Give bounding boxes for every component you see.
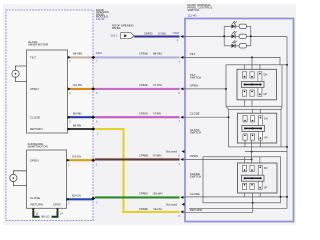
svg-text:VT-WH: VT-WH (153, 83, 162, 87)
svg-text:111-40: 111-40 (187, 14, 196, 18)
net ring sw1 (226, 65, 282, 107)
open row shade (185, 158, 252, 160)
wire WH-BN tilt (left) (68, 56, 94, 58)
svg-text:YE-OG: YE-OG (153, 207, 162, 211)
junction diamond C901 (91, 56, 95, 59)
svg-text:UP: UP (264, 137, 268, 140)
open row (185, 88, 226, 90)
bus bottom horizontal (189, 207, 287, 209)
svg-text:DN: DN (264, 167, 268, 170)
junction dots LED bus (223, 35, 225, 37)
svg-text:TILT: TILT (30, 55, 36, 59)
wire CP30E VT-WH open (right) (95, 88, 180, 90)
tilt row (185, 57, 280, 64)
svg-text:WH-BN: WH-BN (73, 52, 82, 56)
connector flag: roof opening panel feed (121, 33, 135, 39)
svg-text:WH-BU: WH-BU (153, 52, 162, 56)
close row shade (185, 196, 287, 198)
wire: supply into LED bus (185, 36, 224, 38)
svg-text:CPR0B: CPR0B (139, 154, 148, 158)
svg-text:SWITCH: SWITCH (190, 131, 201, 135)
svg-text:UP: UP (264, 93, 268, 96)
LED D1 (231, 24, 235, 28)
module box: ROOF OPENING PANEL MODULE (dashed boundary) (6, 10, 93, 221)
svg-text:CPR05: CPR05 (139, 192, 148, 196)
LED D2 (231, 34, 235, 38)
sw2 bottom collector (245, 151, 287, 153)
svg-text:OG-GN: OG-GN (72, 155, 81, 159)
internal rows / nets (185, 57, 287, 212)
svg-text:CBP30: CBP30 (144, 31, 153, 35)
resistor R1 (239, 24, 246, 28)
svg-text:CP30E: CP30E (139, 83, 148, 87)
svg-text:VT-BN: VT-BN (153, 112, 161, 116)
svg-text:BK-LG: BK-LG (41, 214, 49, 218)
wire: bus to LED D1 (224, 25, 231, 27)
label: ROOF OPENING PANEL CONTROL SWITCH 111-40 (187, 3, 212, 18)
motor M1 (glass smartmotor) (12, 66, 27, 82)
LED branch 2 (224, 31, 251, 39)
svg-text:SWITCH: SWITCH (190, 76, 201, 80)
svg-text:RETURN: RETURN (30, 127, 43, 131)
LED right bus (250, 26, 252, 46)
LED left bus (223, 26, 225, 46)
svg-text:BK-BN: BK-BN (73, 123, 81, 127)
svg-text:CLOSE: CLOSE (190, 192, 200, 196)
LED branch 3 (224, 41, 251, 49)
wire CPR0B GY-BN shade open (right) (95, 158, 180, 160)
svg-text:Not used: Not used (166, 150, 177, 154)
switch S2 (GLASS DN/UP) (237, 113, 276, 151)
switch S3 (SHADE DN/UP) (238, 152, 278, 203)
svg-text:101-1: 101-1 (111, 34, 119, 38)
svg-text:UP: UP (264, 186, 268, 189)
junction dots (251, 56, 253, 58)
svg-text:SWITCH: SWITCH (187, 8, 199, 12)
svg-text:C901: C901 (96, 51, 103, 55)
sunshade smartmotor box (27, 150, 67, 208)
svg-text:RETURN: RETURN (190, 208, 202, 212)
svg-text:OPEN: OPEN (30, 87, 39, 91)
wire CPR4E YE-OG return path (yellow) (95, 129, 180, 212)
wire BK-BN return (left) (68, 128, 94, 130)
wire jog left ring1-ring2 (226, 106, 282, 109)
wire CPR05 GN-WH shade close (right) (95, 196, 180, 198)
svg-text:TILT: TILT (190, 52, 196, 56)
wire CP30D VT-BN close (right) (95, 116, 180, 118)
svg-text:CP03: CP03 (53, 203, 61, 207)
svg-text:RETURN: RETURN (31, 203, 44, 207)
sunshade bottom pins + BK-LG loop (32, 209, 35, 212)
wire OG-GN shade open (left) (67, 159, 94, 161)
LED branch 1 (224, 21, 251, 29)
wire: bus to LED D3 (224, 45, 231, 47)
resistor R2 (239, 34, 246, 38)
supply bus vertical (286, 37, 288, 209)
wire BK-LG loop (33, 211, 57, 217)
net ring sw2 (229, 109, 282, 147)
svg-text:GY-BN: GY-BN (153, 154, 161, 158)
svg-text:111-40: 111-40 (96, 17, 105, 21)
svg-text:CP30B: CP30B (139, 52, 148, 56)
svg-text:OPEN: OPEN (190, 154, 198, 158)
svg-text:BU-BN: BU-BN (73, 112, 81, 116)
svg-text:GY-BU: GY-BU (158, 31, 166, 35)
svg-text:SMARTMOTOR: SMARTMOTOR (28, 144, 48, 148)
svg-text:SWITCH: SWITCH (190, 174, 201, 178)
wire CBP30 GY-BU supply (134, 35, 179, 37)
pin arrow at switch box (supply) (180, 35, 183, 38)
svg-text:SMARTMOTOR: SMARTMOTOR (28, 43, 48, 47)
svg-text:DN: DN (264, 118, 268, 121)
net ring sw3 (203, 157, 281, 203)
wire OG-BN open (left) (68, 88, 94, 90)
switch row labels (190, 52, 202, 212)
svg-text:CLOSE: CLOSE (190, 112, 200, 116)
svg-text:BU-GN: BU-GN (72, 194, 81, 198)
label: ROOF OPENING PANEL MODULE 111-40 (96, 8, 109, 21)
wire: bus to LED D2 (224, 35, 231, 37)
switch S1 (TILT DN/UP) (237, 57, 277, 116)
wire: LED bus to right supply bus (251, 36, 287, 38)
svg-text:OPEN: OPEN (190, 83, 198, 87)
label: ROOF OPENING PANEL connector 101-1 (111, 23, 134, 37)
svg-text:CLOSE: CLOSE (30, 196, 40, 200)
svg-text:C902: C902 (173, 31, 180, 35)
LED D3 (231, 44, 235, 48)
wire CP30B WH-BU tilt (right) (95, 56, 180, 58)
motor M2 (sunshade smartmotor) (10, 171, 27, 186)
return row (185, 211, 253, 213)
switch box: ROOF OPENING PANEL CONTROL SWITCH (solid boundary) (185, 19, 294, 222)
wire BU-BN close (left) (68, 116, 94, 118)
resistor R3 (239, 44, 246, 48)
svg-text:CLOSE: CLOSE (30, 115, 40, 119)
svg-text:OG-BN: OG-BN (73, 83, 82, 87)
svg-text:GN-WH: GN-WH (153, 192, 162, 196)
svg-text:Not used: Not used (166, 202, 177, 206)
svg-text:OPEN: OPEN (30, 158, 39, 162)
svg-text:CPR4E: CPR4E (139, 207, 148, 211)
svg-text:PANEL: PANEL (112, 26, 121, 30)
glass smartmotor box (27, 50, 68, 133)
svg-text:CP30D: CP30D (139, 112, 148, 116)
wire BU-GN shade close (left) (67, 198, 94, 200)
close row (185, 116, 229, 118)
svg-text:DN: DN (264, 74, 268, 77)
